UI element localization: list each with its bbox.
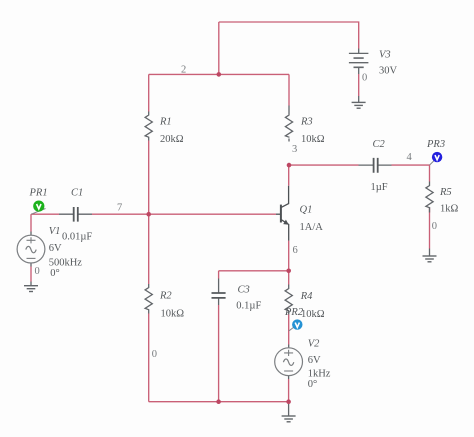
svg-text:1kΩ: 1kΩ — [440, 204, 459, 215]
svg-text:7: 7 — [117, 203, 122, 214]
svg-text:4: 4 — [407, 152, 413, 163]
svg-text:0°: 0° — [308, 379, 317, 390]
svg-text:V3: V3 — [379, 50, 391, 61]
svg-text:C3: C3 — [238, 285, 250, 296]
svg-text:10kΩ: 10kΩ — [301, 309, 325, 320]
svg-text:6: 6 — [293, 245, 298, 256]
svg-text:0: 0 — [432, 221, 437, 232]
svg-text:C1: C1 — [71, 187, 83, 198]
svg-text:V2: V2 — [308, 338, 320, 349]
svg-text:1A/A: 1A/A — [300, 222, 324, 233]
svg-text:6V: 6V — [308, 355, 321, 366]
svg-text:3: 3 — [292, 144, 297, 155]
svg-text:0.1µF: 0.1µF — [236, 300, 261, 311]
svg-text:2: 2 — [181, 65, 186, 76]
svg-text:0°: 0° — [50, 268, 59, 279]
svg-text:V1: V1 — [49, 226, 61, 237]
svg-text:500kHz: 500kHz — [49, 258, 83, 269]
svg-text:PR3: PR3 — [426, 139, 445, 150]
svg-text:R1: R1 — [159, 117, 172, 128]
svg-text:20kΩ: 20kΩ — [160, 134, 184, 145]
svg-text:R4: R4 — [300, 291, 313, 302]
svg-text:C2: C2 — [373, 139, 386, 150]
svg-text:R5: R5 — [439, 187, 452, 198]
svg-text:PR1: PR1 — [29, 187, 48, 198]
svg-text:Q1: Q1 — [300, 205, 313, 216]
svg-text:1µF: 1µF — [371, 182, 388, 193]
svg-text:6V: 6V — [49, 243, 62, 254]
svg-text:10kΩ: 10kΩ — [301, 134, 325, 145]
svg-text:10kΩ: 10kΩ — [161, 309, 185, 320]
svg-text:R3: R3 — [300, 117, 313, 128]
svg-text:0: 0 — [362, 73, 367, 84]
svg-text:30V: 30V — [379, 66, 398, 77]
svg-text:0: 0 — [152, 349, 157, 360]
svg-text:0: 0 — [35, 266, 40, 277]
svg-text:R2: R2 — [159, 291, 172, 302]
svg-text:0.01µF: 0.01µF — [62, 231, 92, 242]
